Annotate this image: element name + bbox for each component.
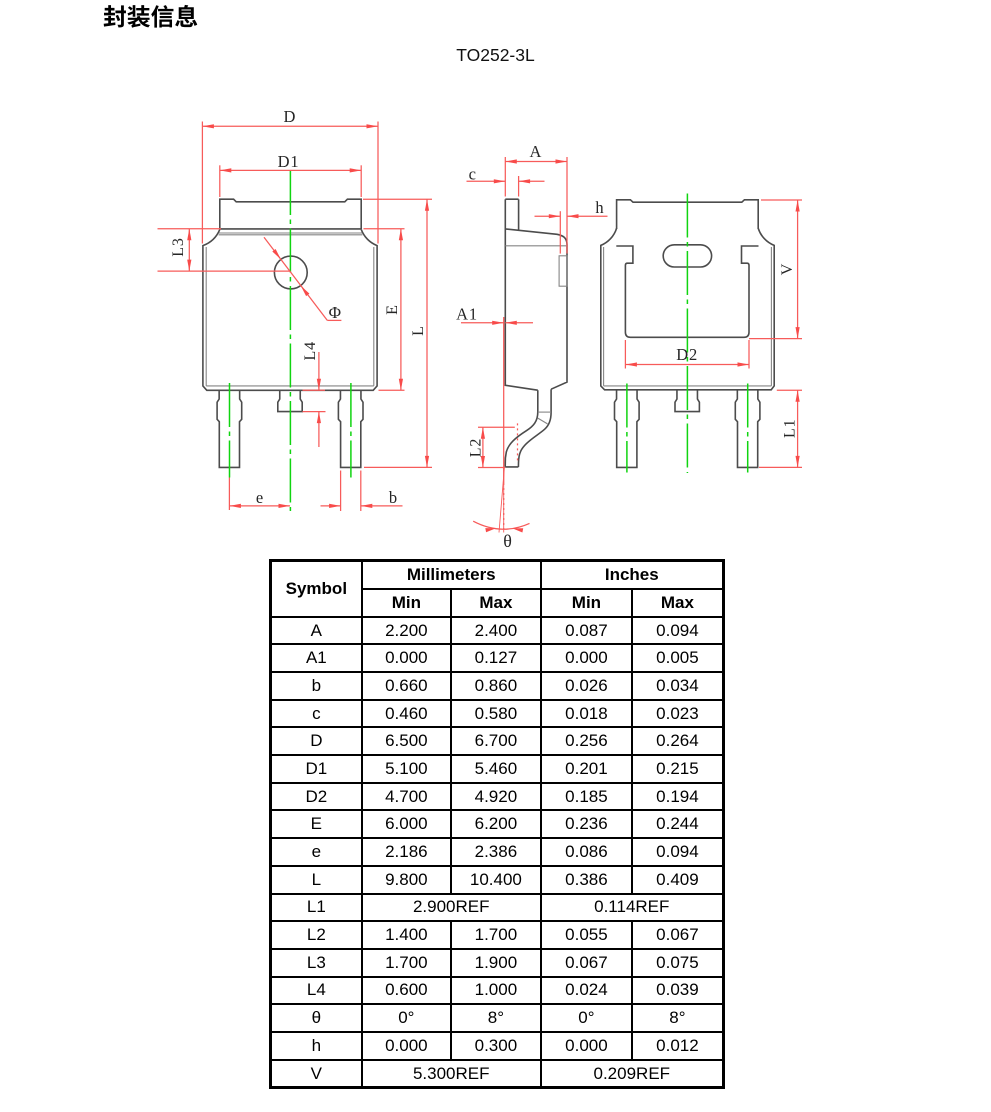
dimension A1: seating reference line <box>503 317 505 483</box>
dimension A1: seating reference dotted <box>503 483 505 530</box>
dimension c: right dimension line <box>519 180 545 182</box>
dimension D2: right arrowhead <box>738 362 750 366</box>
dimension A1: right dimension line <box>505 322 533 324</box>
dimension L4: upper dimension line <box>318 352 320 390</box>
title 封装信息 (Package Information) drawn as glyph paths <box>0 0 240 40</box>
svg-text:A: A <box>530 142 542 161</box>
dimension L: top arrowhead <box>425 199 429 211</box>
dimension e: dimension line <box>229 505 290 507</box>
dimension L: top extension line <box>363 198 432 200</box>
dimension c: left dimension line <box>467 180 506 182</box>
dimension D: left arrowhead <box>202 124 214 128</box>
svg-text:L2: L2 <box>468 438 485 457</box>
dimension E: top extension line <box>364 228 405 230</box>
dimension L1: dimension line <box>797 390 799 467</box>
dimension A1: left dimension line <box>461 322 504 324</box>
side view: body outline <box>505 199 567 390</box>
back view: main vertical centerline <box>686 194 688 474</box>
dimension L1: bottom extension line <box>759 466 802 468</box>
dimension L4: upper reference line <box>303 389 326 391</box>
dimension &#952;: angled reference line <box>499 468 504 533</box>
front view: body bottom inner edge <box>206 385 374 387</box>
dimension D: left extension line <box>201 122 203 244</box>
dimension D1: right extension line <box>360 165 362 197</box>
dimension A: dimension line <box>505 161 567 163</box>
front view: body outline <box>203 229 377 390</box>
front view: right lead (pin 3) <box>338 390 363 467</box>
dimension D1: left arrowhead <box>220 168 232 172</box>
svg-text:A1: A1 <box>456 305 478 324</box>
hole diameter leader line <box>264 237 327 320</box>
dimension L: bottom arrowhead <box>425 456 429 468</box>
svg-text:c: c <box>469 164 476 183</box>
main drawing svg <box>0 0 991 560</box>
svg-text:θ: θ <box>503 531 512 551</box>
back view: body bottom inner edge <box>604 385 772 387</box>
dimension &#952;: right arc arrowhead <box>513 528 524 532</box>
dimension L2: bottom reference line <box>478 467 505 469</box>
dimension A: left arrowhead <box>505 159 517 163</box>
back view: left lead centerline <box>626 384 628 473</box>
side view: lead bend line upper <box>538 411 551 413</box>
dimension h: left dimension line <box>535 215 561 217</box>
front view: main vertical centerline <box>289 171 291 511</box>
hole diameter leader underline <box>327 319 341 321</box>
back view: left lead <box>615 390 640 467</box>
dimension L2: vertical dotted reference <box>517 423 519 463</box>
dimension table <box>269 559 725 1089</box>
back view: body mold line left <box>603 247 605 386</box>
front view: right lead centerline <box>350 383 352 478</box>
front view: left lead centerline <box>229 383 231 478</box>
dimension D2: right extension line <box>748 340 750 369</box>
dimension D2: left arrowhead <box>625 362 637 366</box>
dimension L2: dimension line <box>482 427 484 467</box>
svg-text:e: e <box>256 488 263 507</box>
dimension D2: left extension line <box>624 340 626 369</box>
subtitle TO252-3L <box>0 45 991 66</box>
dimension L1: top arrowhead <box>796 390 800 402</box>
dimension A: right arrowhead <box>556 159 568 163</box>
svg-text:L4: L4 <box>302 341 319 360</box>
back view: right lead <box>735 390 760 467</box>
dimension D1: left extension line <box>219 165 221 197</box>
dimension h: left arrowhead <box>549 214 561 218</box>
dimension L: bottom extension line <box>364 466 432 468</box>
dimension c: left arrowhead <box>494 179 506 183</box>
front view: body shoulder line lower <box>219 234 363 236</box>
dimension V: bottom extension line <box>749 338 802 340</box>
dimension b: left arrowhead <box>329 504 341 508</box>
dimension L3: bottom arrowhead <box>187 260 191 272</box>
svg-text:D2: D2 <box>676 345 698 364</box>
dimension L3: dimension line <box>188 229 190 271</box>
dimension h: right arrowhead <box>567 214 579 218</box>
back view: body outline <box>601 228 774 390</box>
svg-text:L: L <box>410 326 427 336</box>
dimension L4: lower arrowhead <box>317 412 321 424</box>
dimension L3: top reference line <box>158 228 222 230</box>
back view: right lead centerline <box>747 384 749 473</box>
dimension b: left extension line <box>340 471 342 512</box>
dimension L2: top reference line <box>478 426 515 428</box>
back view: exposed pad outline <box>616 246 758 337</box>
dimension E: bottom arrowhead <box>399 379 403 391</box>
back view: tab hole (oblong) <box>663 245 711 267</box>
dimension L: dimension line <box>426 199 428 467</box>
svg-text:D: D <box>284 107 296 126</box>
dimension V: bottom arrowhead <box>796 327 800 339</box>
dimension &#952;: vertical reference line <box>503 468 505 533</box>
dimension &#952;: left arc arrowhead <box>485 528 496 532</box>
dimension L2: top arrowhead <box>481 427 485 439</box>
dimension e: left extension line <box>228 478 230 511</box>
front view: body mold line left <box>205 247 207 386</box>
dimension A1: left arrowhead <box>492 321 504 325</box>
dimension c: tab right extension line <box>518 176 520 197</box>
dimension L3: top arrowhead <box>187 229 191 241</box>
dimension D: right extension line <box>377 122 379 244</box>
dimension L4: upper arrowhead <box>317 379 321 391</box>
front view: tab bottom edge <box>220 228 361 230</box>
back view: body mold line right <box>770 247 772 386</box>
svg-text:h: h <box>595 198 604 217</box>
front view: body shoulder line upper <box>218 232 364 234</box>
hole leader arrowhead lower <box>301 286 310 296</box>
dimension D: dimension line <box>202 125 378 127</box>
dimension A1: right arrowhead <box>505 321 517 325</box>
dimension b: left dimension line <box>321 505 341 507</box>
hole leader arrowhead upper <box>272 249 281 259</box>
dimension &#952;: arc <box>473 521 529 529</box>
dimension L2: bottom arrowhead <box>481 456 485 468</box>
svg-text:L1: L1 <box>782 419 799 438</box>
dimension L4: lower reference line <box>303 411 326 413</box>
front view: middle lead stub (pin 2) <box>278 390 302 411</box>
dimension b: right dimension line <box>361 505 403 507</box>
dimension V: dimension line <box>797 200 799 339</box>
dimension h: inner extension line <box>559 211 561 253</box>
dimension c: right arrowhead <box>519 179 531 183</box>
back view: middle lead stub <box>675 390 699 411</box>
dimension D1: dimension line <box>220 169 361 171</box>
front view: mounting tab outline <box>220 199 361 229</box>
dimension A: right extension line <box>566 157 568 254</box>
svg-text:D1: D1 <box>278 152 300 171</box>
dimension L3: bottom reference line to hole center <box>158 270 291 272</box>
dimension A: left extension line <box>504 157 506 197</box>
svg-text:E: E <box>384 305 401 315</box>
front view: body mold line right <box>373 247 375 386</box>
dimension L1: top extension line <box>777 389 802 391</box>
side view: bent lead (gull wing) <box>505 389 551 467</box>
dimension b: right arrowhead <box>361 504 373 508</box>
side view: lead bend line lower <box>538 418 548 424</box>
dimension h: right dimension line <box>567 215 608 217</box>
back view: tab outline <box>617 200 759 229</box>
dimension L4: lower dimension line <box>318 412 320 447</box>
svg-text:Φ: Φ <box>329 303 341 322</box>
svg-text:V: V <box>779 263 796 275</box>
dimension D1: right arrowhead <box>350 168 362 172</box>
svg-text:L3: L3 <box>170 237 187 256</box>
front view: left lead (pin 1) <box>217 390 242 467</box>
side view: mold step line <box>505 245 567 247</box>
dimension b: right extension line <box>360 471 362 512</box>
dimension E: top arrowhead <box>399 229 403 241</box>
side view: tab edge ledge rectangle <box>559 256 567 286</box>
dimension E: dimension line <box>400 229 402 390</box>
dimension D2: dimension line <box>625 364 749 366</box>
front view: mounting hole circle <box>274 256 307 289</box>
dimension e: right arrowhead <box>279 504 291 508</box>
dimension E: bottom extension line <box>379 389 405 391</box>
dimension V: top arrowhead <box>796 200 800 212</box>
svg-text:b: b <box>389 488 397 507</box>
dimension e: left arrowhead <box>229 504 241 508</box>
dimension D: right arrowhead <box>367 124 379 128</box>
dimension V: top extension line <box>761 199 802 201</box>
dimension L1: bottom arrowhead <box>796 456 800 468</box>
